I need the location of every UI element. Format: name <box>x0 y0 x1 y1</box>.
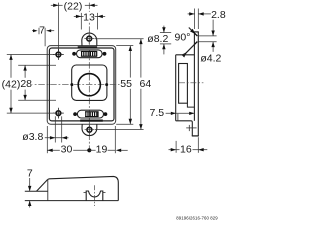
screw hole bottom-left (countersunk symbol) <box>56 111 61 116</box>
top slot dark root band on plate edge <box>78 46 97 48</box>
side view: housing top edge <box>176 54 195 56</box>
top slot end dot right <box>103 52 107 56</box>
dimension 7.5 <box>166 112 195 114</box>
side view: hook top edge and step down <box>176 121 193 136</box>
svg-text:(22): (22) <box>64 0 83 12</box>
side view: plate bar left edge <box>193 32 195 121</box>
front view: plate inner outline <box>49 48 114 121</box>
side view: latch tongue rectangle <box>179 64 188 104</box>
svg-text:(42): (42) <box>2 78 21 90</box>
svg-text:ø4.2: ø4.2 <box>200 52 221 64</box>
svg-text:28: 28 <box>20 78 32 90</box>
dimension 7 (top, edge to screw hole) <box>32 28 54 47</box>
svg-text:ø3.8: ø3.8 <box>22 131 43 143</box>
screw hole top-left (countersunk symbol) <box>56 52 61 57</box>
dimension 2.8 <box>188 9 211 30</box>
bottom slot end dot right <box>104 112 108 116</box>
bottom view: detent notch <box>86 191 103 201</box>
svg-text:30: 30 <box>61 143 73 155</box>
bottom view: top edge and right end <box>47 176 118 200</box>
side dot left on square edge <box>70 83 73 86</box>
svg-text:2.8: 2.8 <box>211 9 226 21</box>
svg-text:7.5: 7.5 <box>149 107 164 119</box>
top slot serration teeth <box>81 51 97 57</box>
bottom view: ramp diagonal <box>37 180 48 192</box>
side view: housing left edge <box>175 55 177 121</box>
bottom slot obround <box>77 110 103 118</box>
dimension o8.2 <box>160 26 171 55</box>
top slot end dot left <box>72 52 76 56</box>
bottom tab hole crosshair <box>85 129 95 131</box>
side view horizontal centerline <box>179 82 203 84</box>
svg-text:64: 64 <box>140 78 152 90</box>
side view: tongue root step <box>187 103 194 107</box>
bottom slot dark root band on plate inner edge <box>80 119 103 121</box>
side view: countersink lower flank + extension <box>185 42 197 54</box>
side dot right on square edge <box>105 83 108 86</box>
svg-text:7: 7 <box>27 168 33 180</box>
side view: plate bar right edge <box>197 32 199 136</box>
dimension 28 <box>18 65 56 100</box>
svg-text:16: 16 <box>180 143 192 155</box>
side view: bar bottom edge <box>192 135 199 137</box>
svg-text:ø8.2: ø8.2 <box>147 33 168 45</box>
side view: bar top edge <box>194 31 199 33</box>
countersink flank arrow upper <box>190 29 195 34</box>
dimension (22) <box>51 3 98 52</box>
dimension 7 (bottom view) <box>29 178 31 208</box>
bottom tab hole ring <box>87 127 92 132</box>
front view: plate outer outline <box>47 46 116 125</box>
svg-text:90°: 90° <box>175 32 191 44</box>
vertical centerline of front view <box>88 3 90 149</box>
dimension 64 <box>95 39 144 130</box>
svg-text:13: 13 <box>83 11 95 23</box>
bottom slot serration teeth <box>85 111 99 117</box>
svg-text:19: 19 <box>96 143 108 155</box>
dimension (42) <box>7 55 54 114</box>
bottom view: bottom edge <box>25 200 119 202</box>
bottom mounting tab <box>82 124 97 136</box>
svg-text:55: 55 <box>120 78 132 90</box>
svg-text:89196I2616-760 829: 89196I2616-760 829 <box>176 216 218 221</box>
side view: hook hole cross <box>186 127 196 129</box>
dimension o4.2 <box>198 20 216 52</box>
dimension 13 <box>74 13 105 30</box>
side view: bent tab thickness line <box>177 114 179 121</box>
dimension o3.8 leader <box>45 116 69 142</box>
countersink mouth V lower <box>194 42 197 45</box>
bottom view: notch side nubs <box>84 191 87 193</box>
horizontal centerline of front view <box>26 84 120 86</box>
dimension 19 <box>89 126 127 153</box>
countersink mouth V upper <box>194 33 197 36</box>
top tab hole crosshair <box>84 38 94 40</box>
bottom view: strip top edge <box>25 190 48 192</box>
bottom view: notch centerline <box>94 185 96 206</box>
top slot obround <box>77 50 103 58</box>
bottom view: crest vertical <box>47 180 49 201</box>
junction dot 30/19 <box>87 148 91 152</box>
dimension 16 <box>169 137 208 153</box>
central circle (bold) <box>78 74 100 96</box>
dimension 55 <box>116 46 133 125</box>
dimension 30 <box>47 126 89 153</box>
top mounting tab <box>82 33 97 46</box>
top tab hole ring <box>87 36 92 41</box>
side view: countersink upper flank + extension <box>189 28 198 37</box>
bottom slot end dot left <box>73 112 77 116</box>
central rounded square cutout <box>72 65 107 100</box>
countersink flank arrow lower <box>182 52 187 57</box>
svg-text:7: 7 <box>39 24 45 36</box>
